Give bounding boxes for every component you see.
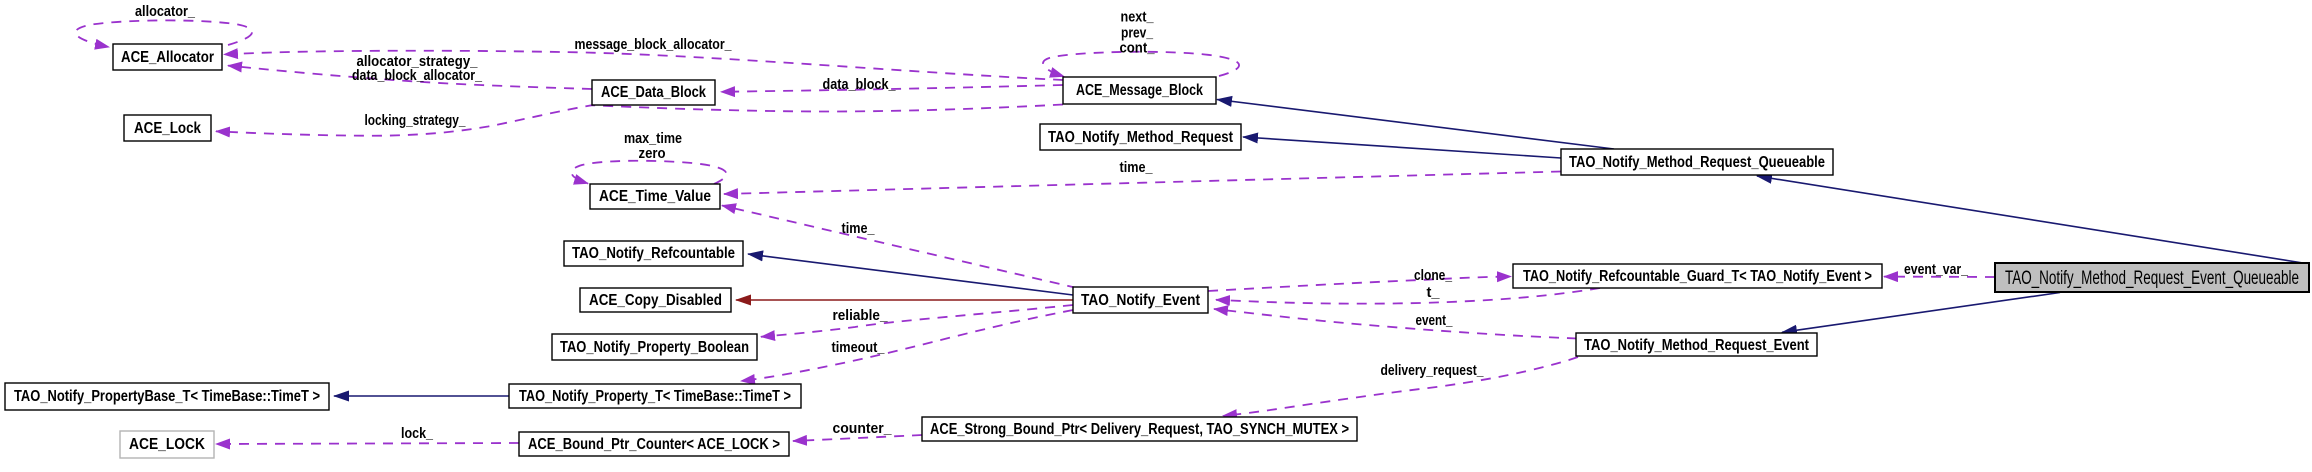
wire allocator_ self-loop on ACE_Allocator [75,3,252,47]
svg-text:ACE_Strong_Bound_Ptr< Delivery: ACE_Strong_Bound_Ptr< Delivery_Request, … [930,421,1349,438]
svg-text:ACE_Lock: ACE_Lock [134,120,201,137]
svg-text:time_: time_ [1120,159,1154,176]
node ACE_Copy_Disabled [580,288,731,312]
wire allocator_strategy_ data_block_allocator_ edge ACE_Data_Block to ACE_Allocator [228,53,592,89]
svg-text:clone_: clone_ [1414,267,1453,284]
wire inheritance TAO_Notify_Event to TAO_Notify_Refcountable [748,254,1073,295]
svg-text:locking_strategy_: locking_strategy_ [365,112,467,129]
wire data_block_ edge ACE_Message_Block to ACE_Data_Block [721,76,1063,93]
svg-text:timeout_: timeout_ [832,339,886,356]
svg-text:TAO_Notify_Method_Request_Queu: TAO_Notify_Method_Request_Queueable [1569,154,1825,171]
node TAO_Notify_Method_Request_Event [1576,333,1817,356]
wire t_ edge TAO_Notify_Refcountable_Guard_T to TAO_Notify_Event [1216,284,1600,304]
svg-text:TAO_Notify_Event: TAO_Notify_Event [1081,292,1200,309]
svg-text:ACE_Bound_Ptr_Counter< ACE_LOC: ACE_Bound_Ptr_Counter< ACE_LOCK > [528,436,780,453]
node ACE_Message_Block [1063,77,1216,104]
wire reliable_ edge TAO_Notify_Event to TAO_Notify_Property_Boolean [761,305,1073,337]
svg-text:TAO_Notify_Method_Request_Even: TAO_Notify_Method_Request_Event [1584,337,1809,354]
svg-text:counter_: counter_ [833,420,893,437]
svg-text:data_block_allocator_: data_block_allocator_ [352,67,483,84]
svg-text:next_: next_ [1121,9,1155,26]
svg-text:time_: time_ [842,220,876,237]
wire max_time zero self-loop on ACE_Time_Value [572,130,727,184]
svg-text:TAO_Notify_Method_Request: TAO_Notify_Method_Request [1048,129,1233,146]
node TAO_Notify_Property_Boolean [552,334,757,360]
node TAO_Notify_Refcountable_Guard_T [1513,264,1882,288]
svg-text:event_: event_ [1416,312,1454,329]
svg-text:cont_: cont_ [1120,40,1156,57]
svg-text:ACE_Data_Block: ACE_Data_Block [601,84,706,101]
wire inheritance TAO_Notify_Property_T to TAO_Notify_PropertyBase_T [334,395,509,397]
node ACE_LOCK [120,431,214,458]
wire timeout_ edge TAO_Notify_Event to TAO_Notify_Property_T [741,310,1073,381]
wire delivery_request_ edge TAO_Notify_Method_Request_Event to ACE_Strong_Bound_Ptr [1223,357,1578,416]
wire inheritance TAO_Notify_Method_Request_Queueable to ACE_Message_Block [1217,100,1614,150]
wire message_block_allocator_ edge ACE_Message_Block to ACE_Allocator [224,36,1063,80]
wire clone_ edge TAO_Notify_Event to TAO_Notify_Refcountable_Guard_T [1208,267,1511,291]
node ACE_Lock [124,115,211,141]
wire next_ prev_ cont_ self-loop on ACE_Message_Block [1043,9,1239,77]
node TAO_Notify_Property_T [509,384,801,408]
svg-text:event_var_: event_var_ [1904,261,1969,278]
svg-text:t_: t_ [1427,284,1441,301]
svg-text:TAO_Notify_Property_Boolean: TAO_Notify_Property_Boolean [560,339,749,356]
svg-text:reliable_: reliable_ [833,307,889,324]
node ACE_Strong_Bound_Ptr [922,417,1357,441]
svg-text:lock_: lock_ [401,425,434,442]
node ACE_Allocator [113,44,222,70]
svg-text:TAO_Notify_Property_T< TimeBas: TAO_Notify_Property_T< TimeBase::TimeT > [519,388,791,405]
wire inheritance TAO_Notify_Method_Request_Queueable to TAO_Notify_Method_Request [1243,137,1561,158]
svg-text:message_block_allocator_: message_block_allocator_ [575,36,733,53]
wire event_ edge TAO_Notify_Method_Request_Event to TAO_Notify_Event [1214,309,1577,339]
svg-text:ACE_Message_Block: ACE_Message_Block [1076,82,1203,99]
node TAO_Notify_Method_Request_Queueable [1561,149,1833,175]
node TAO_Notify_Event [1073,287,1208,313]
node ACE_Time_Value [590,184,720,209]
node ACE_Data_Block [592,80,715,105]
svg-text:ACE_LOCK: ACE_LOCK [129,436,206,453]
node TAO_Notify_Method_Request [1040,124,1241,150]
svg-text:ACE_Allocator: ACE_Allocator [121,49,214,66]
wire inheritance TAO_Notify_Method_Request_Event_Queueable to TAO_Notify_Method_Request_Queueable [1757,176,2303,263]
svg-text:zero: zero [639,145,666,162]
svg-text:TAO_Notify_Method_Request_Even: TAO_Notify_Method_Request_Event_Queueabl… [2005,268,2299,289]
wire lock_ edge ACE_Bound_Ptr_Counter to ACE_LOCK [216,425,519,444]
svg-text:ACE_Copy_Disabled: ACE_Copy_Disabled [589,292,722,309]
wire inheritance TAO_Notify_Method_Request_Event_Queueable to TAO_Notify_Method_Request_Event [1782,293,2060,333]
svg-text:ACE_Time_Value: ACE_Time_Value [599,188,711,205]
wire private inheritance TAO_Notify_Event to ACE_Copy_Disabled [736,299,1073,301]
svg-text:TAO_Notify_Refcountable_Guard_: TAO_Notify_Refcountable_Guard_T< TAO_Not… [1523,268,1872,285]
svg-text:TAO_Notify_Refcountable: TAO_Notify_Refcountable [572,245,735,262]
node TAO_Notify_Method_Request_Event_Queueable main gray [1995,263,2309,292]
svg-text:allocator_: allocator_ [135,3,196,20]
node TAO_Notify_Refcountable [564,241,743,266]
wire locking_strategy_ edge ACE_Message_Block to ACE_Lock [216,105,1063,136]
wire time_ edge TAO_Notify_Event to ACE_Time_Value [722,206,1077,289]
svg-text:data_block_: data_block_ [823,76,897,93]
svg-text:delivery_request_: delivery_request_ [1381,362,1485,379]
node ACE_Bound_Ptr_Counter [519,432,789,456]
wire time_ edge TAO_Notify_Method_Request_Queueable to ACE_Time_Value [724,159,1561,194]
node TAO_Notify_PropertyBase_T [5,383,329,410]
wire counter_ edge ACE_Strong_Bound_Ptr to ACE_Bound_Ptr_Counter [793,420,922,441]
svg-text:TAO_Notify_PropertyBase_T< Tim: TAO_Notify_PropertyBase_T< TimeBase::Tim… [14,388,320,405]
wire event_var_ edge TAO_Notify_Method_Request_Event_Queueable to TAO_Notify_Refcountable_Guard_T [1884,261,1995,278]
